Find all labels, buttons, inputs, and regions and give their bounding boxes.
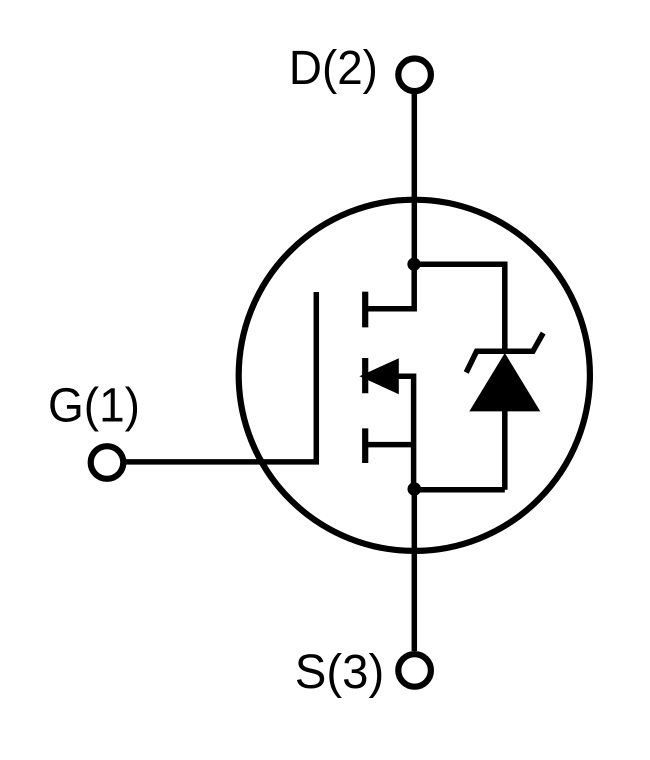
MOSFET Q1 channel bar middle (body)	[362, 358, 368, 393]
node: drain junction dot	[407, 258, 420, 271]
zener diode D1 cathode bar with bent ends	[466, 333, 543, 373]
svg-text:S(3): S(3)	[295, 646, 385, 699]
wire drain: D terminal to top node	[412, 91, 418, 264]
zener diode D1 anode triangle	[469, 353, 540, 411]
transistor body circle (envelope)	[239, 200, 590, 551]
wire: diode branch vertical (cathode side)	[502, 262, 508, 354]
wire: body connection to source node	[396, 376, 414, 489]
terminal D(2) pin circle	[398, 59, 431, 92]
wire: diode branch vertical (anode side)	[502, 411, 508, 490]
svg-text:D(2): D(2)	[289, 42, 378, 95]
wire: source connection from bottom channel bar	[365, 442, 414, 448]
wire: drain connection to top channel bar	[365, 264, 414, 309]
terminal S(3) pin circle	[398, 654, 431, 687]
node: source junction dot	[408, 482, 422, 496]
MOSFET Q1 channel bar bottom (source)	[362, 428, 368, 463]
MOSFET Q1 body arrow (points to channel)	[359, 358, 398, 394]
wire source: bottom node to S terminal	[412, 489, 418, 651]
wire: bottom node to diode branch	[414, 487, 505, 493]
terminal G(1) pin circle	[91, 446, 124, 479]
MOSFET Q1 channel bar top (drain)	[362, 292, 368, 328]
MOSFET Q1 gate electrode	[126, 292, 316, 462]
svg-text:G(1): G(1)	[48, 380, 140, 433]
wire: top node to diode branch	[414, 261, 505, 267]
